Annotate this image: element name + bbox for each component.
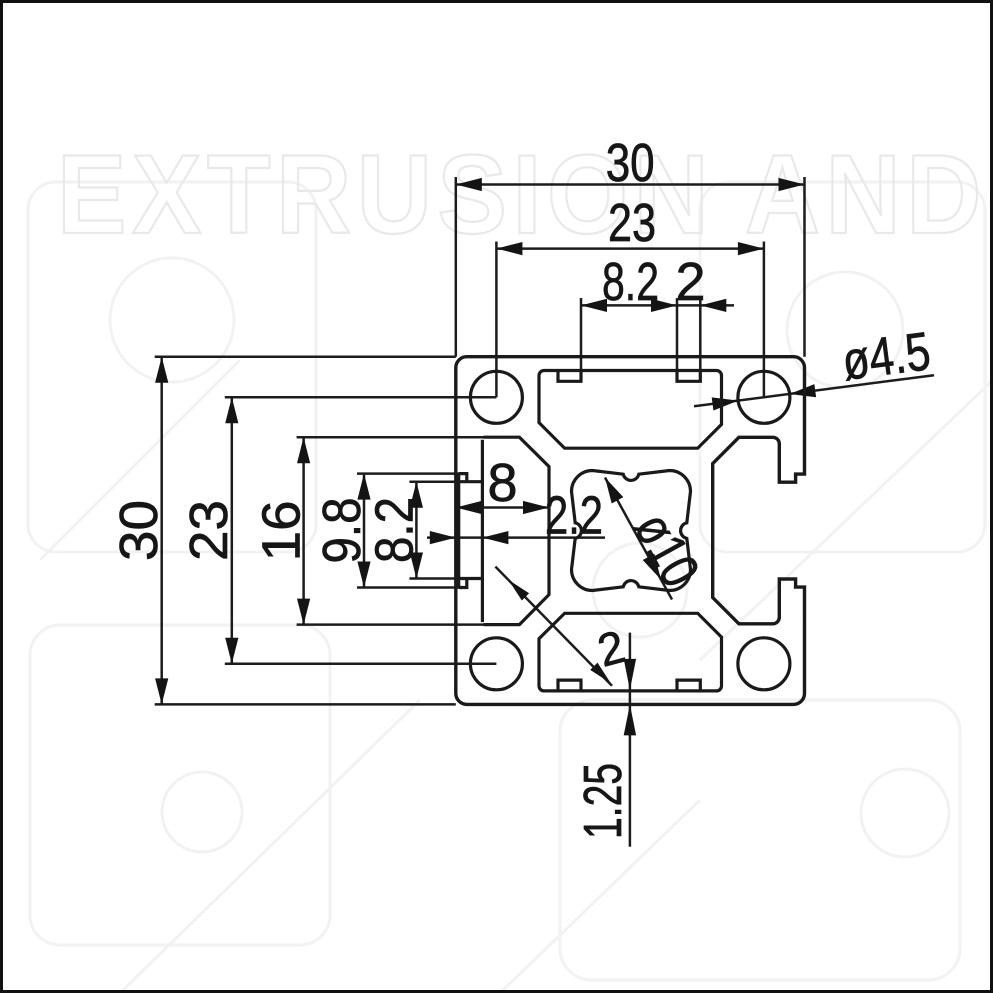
svg-text:9.8: 9.8	[312, 498, 372, 564]
svg-text:23: 23	[608, 193, 656, 253]
svg-text:30: 30	[109, 500, 169, 561]
svg-text:8.2: 8.2	[602, 252, 659, 312]
svg-text:23: 23	[179, 500, 239, 561]
svg-text:EXTRUSION AND: EXTRUSION AND	[57, 132, 987, 257]
svg-text:2.2: 2.2	[545, 486, 603, 546]
svg-text:16: 16	[252, 500, 312, 561]
svg-text:8.2: 8.2	[365, 497, 425, 563]
svg-text:8: 8	[487, 453, 517, 513]
svg-text:ø4.5: ø4.5	[839, 321, 934, 392]
svg-text:30: 30	[606, 133, 655, 193]
svg-text:2: 2	[675, 252, 705, 312]
svg-text:1.25: 1.25	[573, 763, 633, 839]
